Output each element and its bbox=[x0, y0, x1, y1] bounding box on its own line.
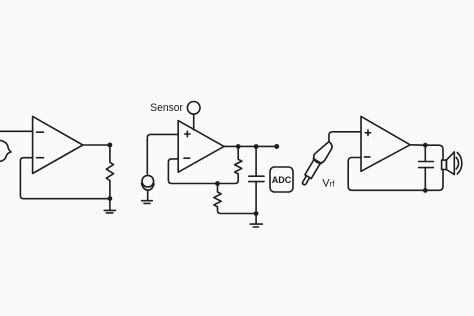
resistor R2 (feedback) bbox=[235, 147, 242, 174]
ADC block bbox=[270, 167, 293, 192]
node: output/R2 bbox=[236, 144, 241, 149]
node: output bbox=[108, 143, 113, 148]
node: bottom rail bbox=[108, 196, 113, 201]
label Sensor bbox=[150, 102, 183, 114]
capacitor C1 bbox=[249, 147, 264, 214]
wire: A2 + input to source bbox=[147, 134, 178, 173]
wire: source to ground bbox=[147, 190, 149, 200]
svg-text:ADC: ADC bbox=[272, 175, 292, 185]
source squiggle (cut off at left edge) bbox=[0, 140, 11, 161]
ground bbox=[142, 201, 153, 204]
node: output/C1 bbox=[254, 144, 259, 149]
wire: feedback from output bottom rail to A1 inverting input bbox=[20, 158, 110, 199]
node: bottom rail / ground bbox=[254, 211, 259, 216]
wire: feedback bottom rail to A3 inverting input bbox=[348, 158, 443, 191]
label Vrf bbox=[322, 177, 335, 189]
wire: sensor to op-amp A2 bbox=[193, 114, 195, 130]
node: bottom rail bbox=[423, 188, 428, 193]
svg-text:Sensor: Sensor bbox=[150, 102, 183, 114]
node: divider junction bbox=[215, 181, 220, 186]
ground bbox=[250, 214, 262, 228]
sensor (circle) bbox=[187, 102, 200, 115]
op-amp A2 bbox=[178, 121, 224, 173]
capacitor C2 bbox=[419, 145, 434, 190]
wire: A1 output bbox=[83, 144, 110, 146]
signal source (loop) bbox=[142, 175, 155, 190]
plug Vrf bbox=[298, 139, 334, 188]
wire: A3 output to speaker bbox=[410, 145, 443, 160]
speaker bbox=[442, 152, 462, 175]
node: output terminal bbox=[274, 144, 279, 149]
resistor R3 (divider to ground) bbox=[214, 184, 256, 214]
ground bbox=[104, 199, 115, 213]
svg-text:rf: rf bbox=[330, 180, 336, 189]
node: output/C2 bbox=[423, 143, 428, 148]
wire: feedback from divider to A2 inverting input bbox=[168, 159, 238, 184]
wire: plug cable to A3 + input bbox=[329, 132, 361, 142]
op-amp A3 bbox=[361, 116, 410, 171]
wire: A2 output bbox=[224, 145, 277, 147]
resistor R1 (load) bbox=[106, 145, 113, 199]
op-amp A1 bbox=[33, 116, 83, 173]
wire: input to op-amp A1 top input bbox=[0, 130, 33, 132]
